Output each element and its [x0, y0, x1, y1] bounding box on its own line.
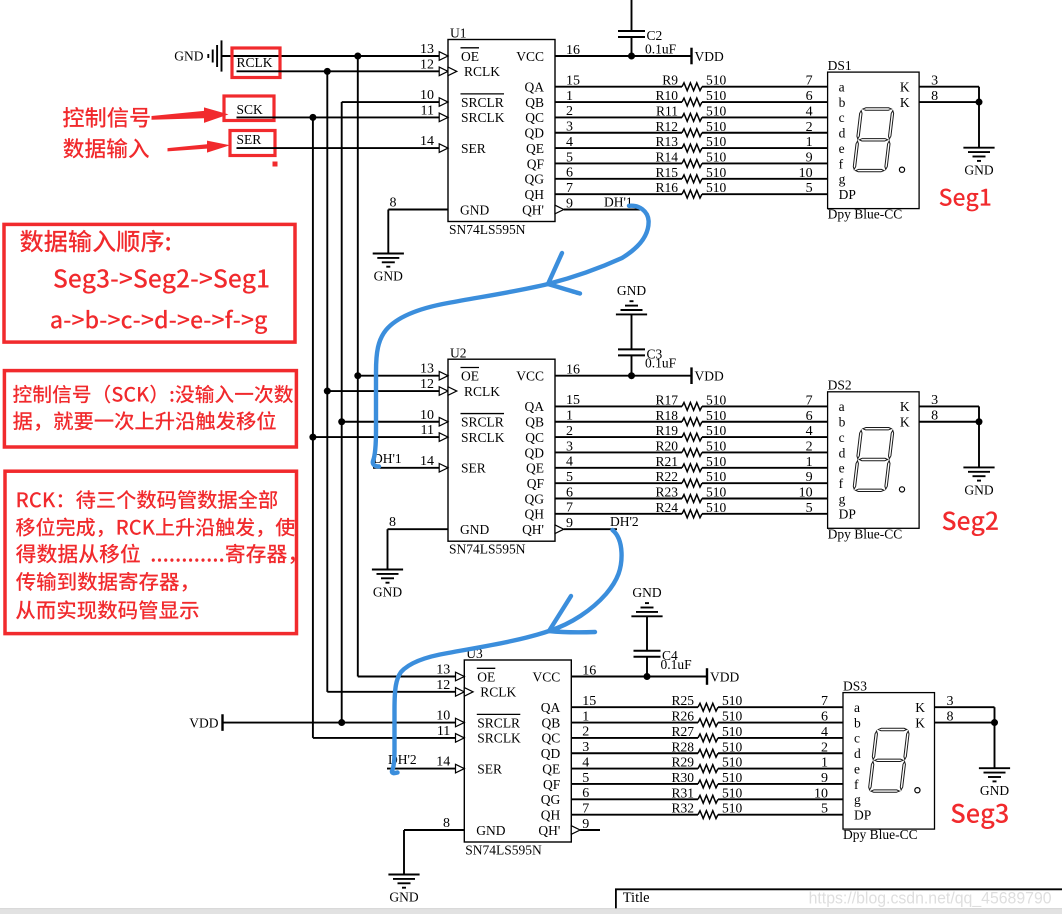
svg-text:Dpy Blue-CC: Dpy Blue-CC	[828, 526, 903, 541]
resistor R13 510 and wire QE segment	[555, 134, 828, 152]
wire DH'2 to U3 pin14 SER	[387, 768, 464, 770]
svg-text:SN74LS595N: SN74LS595N	[449, 542, 526, 557]
U1 right pin numbers 16 15 1 2 3 4 5 6 7 9	[566, 43, 580, 212]
wire bus to U2 pin13 OE	[358, 375, 448, 377]
svg-text:10: 10	[420, 408, 434, 423]
ground symbol below U1	[373, 254, 404, 284]
resistor R20 510 and wire QD segment	[555, 438, 828, 456]
svg-text:VDD: VDD	[695, 49, 724, 64]
svg-text:510: 510	[706, 103, 727, 118]
power symbol VDD (U2)	[692, 367, 724, 384]
wire SER to U1 pin14	[237, 147, 449, 149]
IC U3 SN74LS595N body	[464, 646, 571, 857]
red note text RCK line 1	[18, 490, 278, 509]
svg-text:d: d	[839, 126, 846, 141]
wire SCK to U1 pin11 SRCLK	[237, 116, 449, 118]
net label box RCLK (red)	[232, 48, 280, 78]
red note text RCK line 4	[16, 572, 187, 592]
capacitor C2 0.1uF	[618, 28, 677, 57]
wire DS1 K pin8	[919, 101, 979, 103]
svg-text:13: 13	[436, 663, 450, 678]
red annotation text 数据输入	[63, 138, 149, 158]
resistor R31 510 and wire QG segment	[571, 785, 843, 803]
red note text Seg3-Seg2-Seg1	[54, 269, 268, 294]
svg-text:510: 510	[706, 134, 727, 149]
svg-text:SER: SER	[461, 141, 486, 156]
svg-text:VDD: VDD	[189, 715, 218, 730]
resistor R11 510 and wire QC segment	[555, 103, 828, 121]
svg-text:f: f	[854, 777, 859, 792]
svg-text:GND: GND	[964, 482, 993, 497]
svg-text:10: 10	[799, 166, 813, 181]
svg-text:QB: QB	[525, 415, 544, 430]
svg-text:g: g	[854, 792, 861, 807]
red note text RCK line 5	[16, 600, 198, 619]
svg-text:4: 4	[806, 104, 813, 119]
svg-text:K: K	[900, 399, 910, 414]
svg-text:8: 8	[389, 515, 396, 530]
svg-text:e: e	[854, 761, 860, 776]
DS1 decimal point circle	[899, 167, 904, 172]
svg-text:VDD: VDD	[695, 369, 724, 384]
svg-text:VCC: VCC	[516, 369, 544, 384]
net label box SER (red)	[230, 131, 275, 156]
svg-text:4: 4	[821, 725, 828, 740]
resistor R10 510 and wire QB segment	[555, 88, 828, 106]
svg-text:K: K	[900, 415, 910, 430]
svg-text:R22: R22	[655, 469, 678, 484]
U2 right pin numbers 16 15 1 2 3 4 5 6 7 9	[566, 363, 580, 532]
svg-text:QA: QA	[541, 700, 561, 715]
svg-text:VCC: VCC	[533, 669, 561, 684]
junction U2 RCLK	[324, 388, 331, 395]
svg-text:510: 510	[706, 119, 727, 134]
svg-text:DP: DP	[839, 507, 856, 522]
svg-text:510: 510	[706, 408, 727, 423]
svg-text:14: 14	[420, 454, 434, 469]
svg-text:0.1uF: 0.1uF	[645, 355, 677, 370]
bus wire RCLK (vertical)	[326, 71, 328, 692]
svg-text:R28: R28	[671, 739, 694, 754]
svg-text:1: 1	[821, 756, 828, 771]
junction U3 SRCLR / bus	[338, 719, 345, 726]
svg-text:R29: R29	[671, 755, 694, 770]
red note text 数据输入顺序:	[20, 230, 170, 253]
red note box 2 (SCK note)	[4, 371, 296, 447]
red note text SCK line 2	[13, 411, 276, 431]
svg-text:12: 12	[420, 57, 434, 72]
svg-text:R21: R21	[655, 454, 678, 469]
svg-text:510: 510	[706, 88, 727, 103]
red note text a to g order	[51, 310, 267, 334]
svg-text:R11: R11	[656, 103, 678, 118]
svg-text:OE: OE	[477, 669, 495, 684]
svg-text:510: 510	[706, 423, 727, 438]
svg-text:7: 7	[806, 393, 813, 408]
junction U2 SRCLK	[309, 434, 316, 441]
svg-text:OE: OE	[461, 49, 479, 64]
svg-text:510: 510	[722, 801, 743, 816]
svg-text:0.1uF: 0.1uF	[645, 42, 677, 57]
junction DS1 K	[976, 99, 983, 106]
svg-text:RCLK: RCLK	[464, 64, 500, 79]
junction DS3 K	[991, 719, 998, 726]
svg-text:QF: QF	[543, 777, 561, 792]
svg-text:g: g	[839, 491, 846, 506]
svg-text:GND: GND	[374, 269, 403, 284]
svg-text:510: 510	[706, 454, 727, 469]
svg-text:GND: GND	[174, 49, 203, 64]
blue annotation arrow DH2 from U2 QHp to U3 SER	[392, 530, 622, 773]
svg-text:QC: QC	[525, 430, 544, 445]
svg-text:14: 14	[420, 134, 434, 149]
svg-text:R15: R15	[655, 165, 678, 180]
svg-text:10: 10	[814, 786, 828, 801]
svg-text:7: 7	[821, 694, 828, 709]
wire U2 QHp to DH2 node	[564, 528, 617, 530]
red note box 1 (data input order)	[4, 224, 295, 342]
svg-text:DP: DP	[839, 187, 856, 202]
wire DS3 K pin8	[935, 722, 995, 724]
resistor R25 510 and wire QA segment	[571, 693, 843, 711]
junction U2 SRCLR	[338, 418, 345, 425]
red note text RCK line 2	[16, 518, 295, 538]
svg-text:SN74LS595N: SN74LS595N	[465, 843, 542, 858]
svg-text:QG: QG	[525, 491, 545, 506]
svg-text:GND: GND	[373, 585, 402, 600]
svg-text:DP: DP	[854, 807, 871, 822]
svg-text:11: 11	[437, 724, 450, 739]
svg-text:8: 8	[390, 196, 397, 211]
svg-text:14: 14	[436, 755, 450, 770]
DS1 seven-segment digit glyph	[853, 108, 895, 172]
svg-text:c: c	[839, 110, 845, 125]
svg-text:GND: GND	[476, 823, 505, 838]
resistor R9 510 and wire QA segment	[555, 73, 828, 91]
svg-text:510: 510	[722, 770, 743, 785]
svg-text:510: 510	[706, 500, 727, 515]
U2 left pin numbers 13 12 10 11 14	[420, 362, 434, 469]
svg-text:R14: R14	[655, 149, 678, 164]
svg-text:QG: QG	[525, 172, 545, 187]
svg-text:510: 510	[722, 724, 743, 739]
svg-text:https://blog.csdn.net/qq_45689: https://blog.csdn.net/qq_45689790	[809, 889, 1052, 908]
svg-text:a: a	[839, 80, 845, 95]
svg-text:7: 7	[806, 74, 813, 89]
svg-text:10: 10	[799, 486, 813, 501]
wire DS1 K to ground	[978, 87, 980, 148]
svg-text:DH'2: DH'2	[610, 514, 639, 529]
U3 left pin numbers 13 12 10 11 14	[436, 663, 450, 770]
svg-text:9: 9	[821, 771, 828, 786]
svg-text:QH': QH'	[522, 202, 544, 217]
svg-text:b: b	[854, 715, 861, 730]
wire bus to U3 pin12 RCLK	[327, 691, 464, 693]
svg-text:11: 11	[421, 103, 434, 118]
svg-text:R20: R20	[655, 438, 678, 453]
power symbol VDD (U1)	[692, 48, 724, 65]
wire U1 pin8 GND	[388, 210, 448, 254]
footer gray bar	[0, 908, 1062, 909]
junction C4/VCC	[644, 673, 651, 680]
ground symbol DS2	[963, 467, 994, 497]
svg-text:e: e	[839, 461, 845, 476]
svg-text:510: 510	[722, 755, 743, 770]
resistor R21 510 and wire QE segment	[555, 454, 828, 472]
svg-text:R26: R26	[671, 709, 694, 724]
svg-text:QH: QH	[541, 807, 561, 822]
svg-text:DH'1: DH'1	[373, 451, 402, 466]
svg-text:SCK: SCK	[237, 102, 264, 117]
wire DS2 K pin8	[919, 421, 979, 423]
svg-text:12: 12	[436, 678, 450, 693]
svg-text:R19: R19	[655, 423, 678, 438]
svg-text:R23: R23	[655, 485, 678, 500]
svg-text:5: 5	[806, 501, 813, 516]
svg-text:GND: GND	[460, 522, 489, 537]
svg-text:10: 10	[420, 88, 434, 103]
resistor R27 510 and wire QC segment	[571, 724, 843, 742]
blue annotation arrow DH1 from U1 QHp to U2 SER	[373, 206, 649, 467]
svg-text:Dpy Blue-CC: Dpy Blue-CC	[828, 207, 903, 222]
svg-text:VDD: VDD	[710, 669, 739, 684]
svg-text:510: 510	[706, 180, 727, 195]
svg-text:1: 1	[806, 455, 813, 470]
ground symbol (rotated) at OE input net	[174, 40, 221, 71]
VCC wire pin16 to VDD rail (C4 net)	[571, 676, 707, 678]
U1 input pin arrows	[439, 52, 564, 214]
svg-text:510: 510	[722, 739, 743, 754]
svg-text:SRCLR: SRCLR	[461, 415, 504, 430]
svg-text:QD: QD	[525, 445, 545, 460]
wire bus to U3 pin11 SRCLK	[313, 737, 464, 739]
svg-text:QE: QE	[526, 141, 544, 156]
DS3 decimal point circle	[915, 788, 920, 793]
svg-text:QC: QC	[542, 731, 561, 746]
svg-text:GND: GND	[964, 163, 993, 178]
wire DH'1 to U2 pin14 SER	[373, 467, 448, 469]
svg-text:DS2: DS2	[828, 378, 852, 393]
red annotation arrow to SCK	[152, 107, 229, 123]
wire DS3 K to ground	[994, 707, 996, 768]
svg-text:8: 8	[443, 816, 450, 831]
svg-text:510: 510	[722, 709, 743, 724]
svg-text:a: a	[839, 399, 845, 414]
svg-text:11: 11	[421, 423, 434, 438]
wire U3 pin8 GND	[404, 830, 464, 875]
ground symbol above C4	[631, 585, 662, 651]
svg-text:R32: R32	[671, 801, 694, 816]
svg-text:K: K	[900, 95, 910, 110]
resistor R26 510 and wire QB segment	[571, 709, 843, 727]
svg-text:510: 510	[706, 73, 727, 88]
red label Seg3	[951, 804, 1008, 829]
red dot mark	[273, 162, 278, 167]
svg-text:GND: GND	[389, 890, 418, 905]
svg-text:R9: R9	[662, 73, 678, 88]
svg-text:510: 510	[706, 469, 727, 484]
net label box SCK (red)	[224, 96, 274, 121]
svg-text:RCLK: RCLK	[237, 55, 273, 70]
resistor R29 510 and wire QE segment	[571, 755, 843, 773]
red note text SCK line 1	[13, 385, 293, 404]
svg-text:DS3: DS3	[843, 678, 867, 693]
svg-text:GND: GND	[980, 783, 1009, 798]
7-segment display DS1 body	[828, 58, 920, 222]
svg-text:QA: QA	[525, 399, 545, 414]
7-segment display DS2 body	[828, 378, 920, 542]
svg-text:Title: Title	[623, 890, 650, 906]
svg-text:Dpy Blue-CC: Dpy Blue-CC	[843, 827, 918, 842]
wire DS1 K pin3	[919, 86, 979, 88]
junction C3/VCC	[628, 372, 635, 379]
svg-text:4: 4	[806, 424, 813, 439]
resistor R23 510 and wire QG segment	[555, 485, 828, 503]
wire DS3 K pin3	[935, 706, 995, 708]
svg-text:2: 2	[821, 740, 828, 755]
bus wire SRCLK (vertical)	[312, 117, 314, 738]
svg-text:6: 6	[821, 710, 828, 725]
resistor R18 510 and wire QB segment	[555, 408, 828, 426]
svg-text:g: g	[839, 172, 846, 187]
svg-text:OE: OE	[461, 369, 479, 384]
svg-text:SRCLR: SRCLR	[477, 715, 520, 730]
junction C2/VCC	[628, 53, 635, 60]
IC U2 SN74LS595N body	[448, 345, 555, 556]
svg-text:9: 9	[806, 150, 813, 165]
svg-text:U1: U1	[450, 26, 467, 41]
svg-text:510: 510	[706, 392, 727, 407]
wire VDD to U3 pin10 SRCLR	[223, 722, 465, 724]
svg-text:1: 1	[806, 135, 813, 150]
resistor R32 510 and wire QH segment	[571, 801, 843, 819]
svg-text:QD: QD	[541, 746, 561, 761]
svg-text:SER: SER	[237, 132, 262, 147]
wire U1 QHp to DH1 node	[564, 209, 641, 211]
bus wire SRCLR (vertical)	[341, 102, 343, 723]
svg-text:510: 510	[722, 785, 743, 800]
junction DS2 K	[976, 418, 983, 425]
svg-text:R25: R25	[671, 693, 694, 708]
DS2 decimal point circle	[899, 487, 904, 492]
ground symbol DS1	[963, 148, 994, 178]
7-segment display DS3 body	[843, 678, 935, 842]
resistor R28 510 and wire QD segment	[571, 739, 843, 757]
svg-text:QD: QD	[525, 126, 545, 141]
U3 input pin arrows	[456, 672, 581, 834]
DS1 cathode pin numbers 3 8	[931, 74, 938, 104]
svg-text:b: b	[839, 95, 846, 110]
svg-text:R30: R30	[671, 770, 694, 785]
svg-text:SRCLK: SRCLK	[461, 110, 505, 125]
red label Seg1	[940, 188, 991, 211]
svg-text:b: b	[839, 415, 846, 430]
svg-text:R12: R12	[655, 119, 678, 134]
svg-text:SRCLR: SRCLR	[461, 95, 504, 110]
svg-text:c: c	[839, 430, 845, 445]
bus wire OE (vertical)	[357, 56, 359, 677]
wire U1 pin10 SRCLR from bus	[342, 101, 448, 103]
svg-text:GND: GND	[632, 585, 661, 600]
svg-text:c: c	[854, 731, 860, 746]
svg-text:510: 510	[706, 149, 727, 164]
svg-text:QG: QG	[541, 792, 561, 807]
svg-text:R16: R16	[655, 180, 678, 195]
wire bus to U2 pin11 SRCLK	[313, 436, 448, 438]
wire GND to U1 pin13 OE	[222, 55, 449, 57]
power symbol VDD at U3 SRCLR (left)	[189, 714, 222, 731]
svg-text:R18: R18	[655, 408, 678, 423]
wire U2 pin8 GND	[388, 529, 449, 569]
red annotation arrow to SER	[168, 141, 231, 153]
svg-text:QB: QB	[525, 95, 544, 110]
svg-text:RCLK: RCLK	[480, 685, 516, 700]
svg-text:R17: R17	[655, 392, 678, 407]
svg-text:QH: QH	[525, 187, 545, 202]
svg-text:K: K	[900, 80, 910, 95]
svg-text:6: 6	[806, 409, 813, 424]
svg-text:6: 6	[806, 89, 813, 104]
svg-text:10: 10	[436, 709, 450, 724]
red annotation text 控制信号	[63, 107, 150, 128]
resistor R12 510 and wire QD segment	[555, 119, 828, 137]
wire bus to U2 pin10 SRCLR	[342, 421, 448, 423]
svg-text:510: 510	[722, 693, 743, 708]
wire DS2 K to ground	[978, 406, 980, 467]
svg-text:K: K	[915, 700, 925, 715]
VCC wire pin16 to VDD rail (C3 net)	[555, 375, 692, 377]
svg-text:510: 510	[706, 485, 727, 500]
junction U1 SRCLK	[309, 114, 316, 121]
svg-text:GND: GND	[460, 202, 489, 217]
svg-text:QH': QH'	[522, 522, 544, 537]
svg-text:a: a	[854, 700, 860, 715]
svg-text:12: 12	[420, 377, 434, 392]
resistor R22 510 and wire QF segment	[555, 469, 828, 487]
svg-text:QA: QA	[525, 80, 545, 95]
resistor R15 510 and wire QG segment	[555, 165, 828, 183]
svg-text:R24: R24	[655, 500, 678, 515]
svg-text:f: f	[839, 476, 844, 491]
red note box 3 (RCK note)	[5, 471, 297, 633]
power symbol VDD (U3)	[707, 668, 739, 685]
svg-text:2: 2	[806, 439, 813, 454]
svg-text:QH: QH	[525, 507, 545, 522]
DS3 cathode pin numbers 3 8	[947, 694, 954, 724]
svg-text:0.1uF: 0.1uF	[661, 657, 693, 672]
svg-text:e: e	[839, 141, 845, 156]
resistor R24 510 and wire QH segment	[555, 500, 828, 518]
svg-text:SN74LS595N: SN74LS595N	[449, 222, 526, 237]
svg-text:QF: QF	[527, 476, 545, 491]
svg-text:K: K	[915, 715, 925, 730]
capacitor C3 0.1uF	[618, 346, 677, 375]
svg-text:510: 510	[706, 438, 727, 453]
svg-text:QF: QF	[527, 156, 545, 171]
resistor R14 510 and wire QF segment	[555, 149, 828, 167]
IC U1 SN74LS595N body	[448, 26, 555, 237]
svg-text:QC: QC	[525, 110, 544, 125]
svg-text:RCLK: RCLK	[464, 384, 500, 399]
U3 right pin numbers 16 15 1 2 3 4 5 6 7 9	[582, 663, 596, 832]
red label Seg2	[943, 511, 998, 536]
junction U1 RCLK	[324, 68, 331, 75]
svg-text:QH': QH'	[538, 823, 560, 838]
svg-text:d: d	[839, 445, 846, 460]
wire U3 QHp stub	[580, 829, 600, 831]
ground symbol DS3	[979, 768, 1010, 798]
U2 input pin arrows	[439, 371, 564, 533]
